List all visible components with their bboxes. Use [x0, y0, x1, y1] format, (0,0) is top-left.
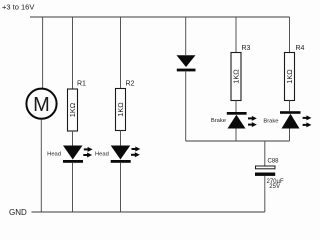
- resistor R1: [68, 89, 78, 131]
- wire rail to R2: [120, 17, 122, 89]
- wire LED2 to GND rail: [120, 163, 122, 212]
- brake bus wire: [186, 140, 290, 142]
- svg-text:GND: GND: [9, 208, 27, 217]
- wire rail to R4: [289, 17, 291, 53]
- svg-text:1KΩ: 1KΩ: [68, 102, 77, 117]
- motor M: [26, 89, 56, 119]
- svg-text:C88: C88: [268, 158, 280, 164]
- wire bus to capacitor: [264, 141, 266, 166]
- diode D1: [177, 55, 196, 71]
- svg-text:Head: Head: [95, 151, 109, 157]
- svg-text:Brake: Brake: [211, 118, 226, 124]
- svg-text:R4: R4: [296, 45, 305, 52]
- wire motor to GND rail: [40, 120, 42, 213]
- wire rail to motor: [42, 17, 44, 89]
- svg-text:1KΩ: 1KΩ: [232, 69, 241, 84]
- GND rail wire: [32, 211, 265, 213]
- wire rail to R1: [72, 17, 74, 89]
- wire capacitor to GND rail: [264, 176, 266, 212]
- wire rail to diode: [185, 17, 187, 55]
- svg-text:M: M: [33, 94, 50, 116]
- LED4 Brake: [263, 111, 311, 128]
- LED1 Head: [47, 146, 92, 163]
- svg-text:R3: R3: [242, 45, 251, 52]
- svg-text:Head: Head: [47, 151, 61, 157]
- capacitor C88: [255, 158, 284, 190]
- resistor R4: [285, 53, 295, 101]
- wire brake LED2 to bus: [289, 129, 291, 142]
- wire LED1 to GND rail: [72, 163, 74, 212]
- resistor R2: [116, 89, 126, 131]
- +V rail wire: [30, 16, 290, 18]
- LED3 Brake: [211, 112, 257, 129]
- wire brake LED1 to bus: [235, 129, 237, 142]
- svg-text:25V: 25V: [269, 184, 280, 190]
- svg-text:+3 to 16V: +3 to 16V: [2, 3, 34, 12]
- svg-text:R1: R1: [77, 80, 86, 87]
- wire diode to brake bus: [185, 71, 187, 141]
- svg-text:1KΩ: 1KΩ: [116, 102, 125, 117]
- svg-text:R2: R2: [126, 81, 135, 88]
- wire R3 to brake LED1: [235, 101, 237, 113]
- svg-text:Brake: Brake: [263, 118, 278, 124]
- wire R2 to LED2: [120, 131, 122, 147]
- wire R4 to brake LED2: [289, 101, 291, 112]
- svg-text:1KΩ: 1KΩ: [285, 69, 294, 84]
- wire R1 to LED1: [72, 131, 74, 146]
- wire rail to R3: [235, 17, 237, 53]
- LED2 Head: [95, 146, 140, 163]
- resistor R3: [231, 53, 241, 101]
